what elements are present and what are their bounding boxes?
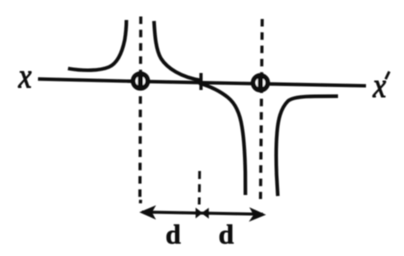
asymptote dashed line 2 <box>261 19 263 199</box>
curve branch upper-right <box>154 21 202 81</box>
curve branch lower-left <box>199 83 245 195</box>
svg-text:d: d <box>166 219 181 250</box>
svg-text:x: x <box>372 66 387 105</box>
node circle 1 <box>133 74 148 89</box>
label x prime mark <box>386 72 390 80</box>
curve branch lower-right <box>276 96 338 196</box>
node circle 2 vertical stub <box>258 74 263 91</box>
arrowhead middle right-pointing <box>196 208 203 219</box>
midpoint dashed tick <box>198 171 201 205</box>
node circle 2 <box>253 76 268 91</box>
curve branch upper-left <box>68 20 126 70</box>
svg-text:x: x <box>18 56 33 95</box>
arrowhead right <box>249 207 266 222</box>
x-axis <box>38 79 366 86</box>
dimension arrow shaft <box>142 212 263 214</box>
arrowhead middle left-pointing <box>201 208 208 219</box>
arrowhead left <box>139 205 156 219</box>
asymptote dashed line 1 <box>138 17 142 198</box>
node circle 1 vertical stub <box>138 73 143 90</box>
asymptote 1 bottom dash <box>139 200 142 204</box>
axis tick at midpoint <box>199 73 202 90</box>
svg-text:d: d <box>219 219 234 250</box>
